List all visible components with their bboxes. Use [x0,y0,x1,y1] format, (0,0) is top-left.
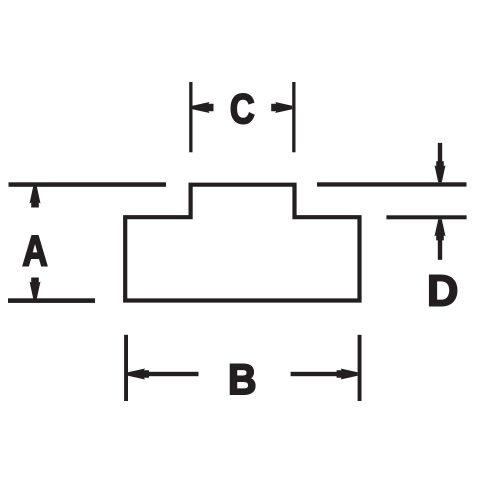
T-profile body outline [125,185,359,301]
svg-text:D: D [427,266,458,315]
svg-text:A: A [22,227,47,275]
dim C arrow left [193,102,214,113]
extension line bottom-left (bottom of body level) [8,298,95,303]
dim B arrow left with tail [128,369,199,380]
dim C arrow right [271,102,292,113]
dim B right extension line [358,335,362,401]
extension line top-right (top of tab level) [317,182,467,186]
svg-text:B: B [228,357,257,404]
dim D lower arrow up with tail [435,219,446,259]
svg-text:C: C [230,85,255,132]
dim B arrow right with tail [291,369,358,380]
dim D upper arrow down with tail [435,143,446,182]
dim A arrow down [30,278,41,299]
extension line right-lower (shoulder level, for D) [386,215,466,219]
dim B left extension line [124,335,128,401]
dim C left extension line [189,82,192,152]
extension line top-left (top of tab level) [9,182,167,187]
dim C right extension line [292,82,295,152]
dim A arrow up [30,187,41,208]
